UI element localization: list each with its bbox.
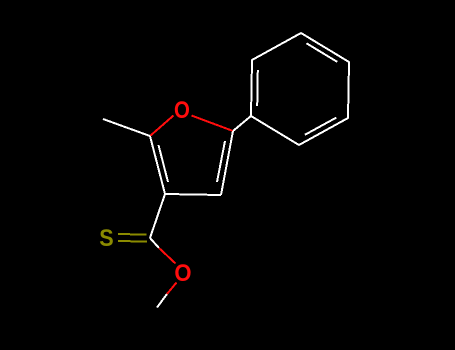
wire C2 - methyl bbox=[103, 119, 150, 136]
wire C2 - C3 bbox=[150, 136, 165, 194]
wire thiocarbonyl C - ester O white half bbox=[150, 238, 159, 248]
svg-text:O: O bbox=[174, 96, 190, 123]
wire C2 = C3 inner double bbox=[159, 145, 169, 182]
benzene double bond inner 2 (top-right edge) bbox=[307, 43, 338, 62]
wire C3 - C4 bbox=[165, 194, 221, 195]
wire C5 - phenyl ipso bbox=[233, 116, 251, 131]
benzene double bond inner 3 (bottom-right edge) bbox=[305, 118, 336, 135]
wire furan O - C5 (red) bbox=[192, 116, 234, 132]
wire C4 = C5 inner double bbox=[217, 141, 225, 182]
wire ester O - methyl red half bbox=[167, 283, 177, 295]
wire ester O - methyl white half bbox=[157, 294, 167, 308]
wire thiocarbonyl C - ester O red half bbox=[159, 248, 176, 264]
wire C = S double bond lower (olive) bbox=[118, 240, 147, 243]
benzene double bond inner 1 (left edge) bbox=[256, 70, 259, 106]
wire C4 - C5 bbox=[221, 131, 233, 195]
svg-text:S: S bbox=[99, 224, 113, 251]
wire C3 - thiocarbonyl C bbox=[150, 194, 165, 238]
svg-text:O: O bbox=[174, 259, 191, 286]
wire furan O - C2 (red) bbox=[150, 116, 174, 137]
benzene ring outline bbox=[251, 33, 349, 145]
wire C = S double bond upper (olive) bbox=[118, 233, 147, 236]
